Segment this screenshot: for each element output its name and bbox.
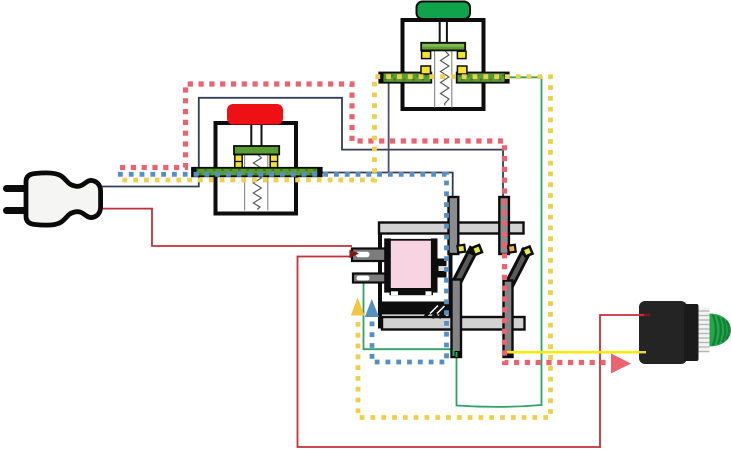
plug prong upper — [3, 185, 28, 192]
start pushbutton S2 (green, NO) — [379, 2, 508, 110]
lamp green dome — [710, 314, 731, 347]
S1 spring — [253, 154, 261, 210]
S2 left fixed bar — [379, 73, 431, 83]
S2 lower contact block left — [421, 66, 431, 74]
S1 plunger stem — [250, 123, 252, 146]
S2 channel walls — [434, 51, 436, 108]
armature actuator bar — [379, 302, 450, 315]
contact K1 fixed pad — [456, 244, 466, 254]
wire: stop-button right terminal to relay contact K1 top (junction node J1) — [322, 173, 453, 200]
S1 contact plate — [234, 146, 279, 154]
plug P1 — [3, 173, 101, 225]
contact K2 movable arm — [510, 254, 525, 283]
coil K1 — [390, 240, 434, 289]
lamp red-wire tick — [639, 314, 645, 316]
lamp yellow-wire tick — [639, 351, 646, 353]
wire: yellow wire from contact K2 bottom to lamp — [505, 351, 644, 354]
wire: start-button left terminal down to junction node J1 — [388, 82, 390, 173]
stop pushbutton S1 (red, NC) — [192, 104, 322, 214]
contact K2 lower bar — [504, 281, 513, 358]
contact K1 fixed bar — [449, 197, 459, 254]
flow overlay: yellow dotted start-circuit path — [117, 77, 551, 418]
wire: branch from coil terminal down along bottom to lamp — [298, 257, 649, 448]
lamp body step — [684, 304, 699, 361]
S2 lower contact block right — [457, 66, 467, 74]
contact K2 movable pad — [521, 245, 534, 258]
S2 plunger stem — [439, 20, 441, 43]
flow overlay: yellow arrowhead at coil — [351, 298, 365, 316]
wire: start-button right terminal down and around to aux contact K1 bottom — [457, 77, 542, 407]
flow overlay: pink arrowhead at lamp — [611, 354, 631, 374]
contact K1 lower bar — [452, 280, 462, 358]
wire: green tick into K1 lower bar bottom — [453, 349, 455, 356]
coil side connector — [437, 259, 447, 278]
lamp L1 (green indicator light) — [639, 301, 731, 364]
S2 green cap — [417, 2, 471, 20]
relay K (contactor) — [352, 197, 534, 357]
relay frame — [380, 225, 451, 327]
armature hatch marks — [425, 303, 449, 318]
wire: neutral line from plug up and around stop button to main contact K2 top — [100, 98, 503, 199]
coil terminal bottom — [353, 274, 389, 283]
contact K2 fixed bar — [499, 197, 509, 254]
wire: coil bottom terminal to aux contact K1 bottom — [364, 281, 453, 349]
flow overlay: blue arrowhead at coil — [365, 299, 379, 317]
coil terminal top — [352, 249, 390, 262]
S1 channel walls — [244, 155, 246, 211]
S1 red cap — [227, 104, 283, 125]
wire: red-wire arrowhead into coil terminal — [350, 250, 360, 259]
S2 right fixed bar — [457, 73, 509, 83]
S1 right contact block — [270, 155, 277, 168]
S1 left contact block — [235, 155, 242, 168]
lamp threaded collar — [699, 308, 710, 354]
S2 upper contact block right — [457, 51, 466, 58]
flow overlay: blue dotted holding-circuit path — [118, 174, 447, 362]
contact K2 fixed pad — [507, 244, 517, 254]
plug prong lower — [3, 207, 28, 214]
flow overlay: pink dotted main power path to lamp — [120, 84, 609, 363]
lamp body — [639, 301, 687, 364]
S2 upper contact block left — [422, 51, 431, 58]
S2 body box — [403, 20, 484, 109]
relay top rail — [379, 223, 524, 234]
relay bottom rail — [382, 317, 525, 330]
contact K1 movable pad — [470, 243, 483, 256]
S1 body box — [216, 123, 297, 214]
plug body — [26, 173, 101, 225]
S1 moving contact bar — [192, 168, 322, 177]
S2 contact plate — [421, 43, 465, 51]
S2 spring — [441, 51, 449, 106]
wire: hot line from plug to coil top terminal — [98, 209, 352, 246]
wire: green tick K1 bottom to holding wire — [456, 352, 458, 357]
contact K1 movable arm — [457, 253, 472, 282]
